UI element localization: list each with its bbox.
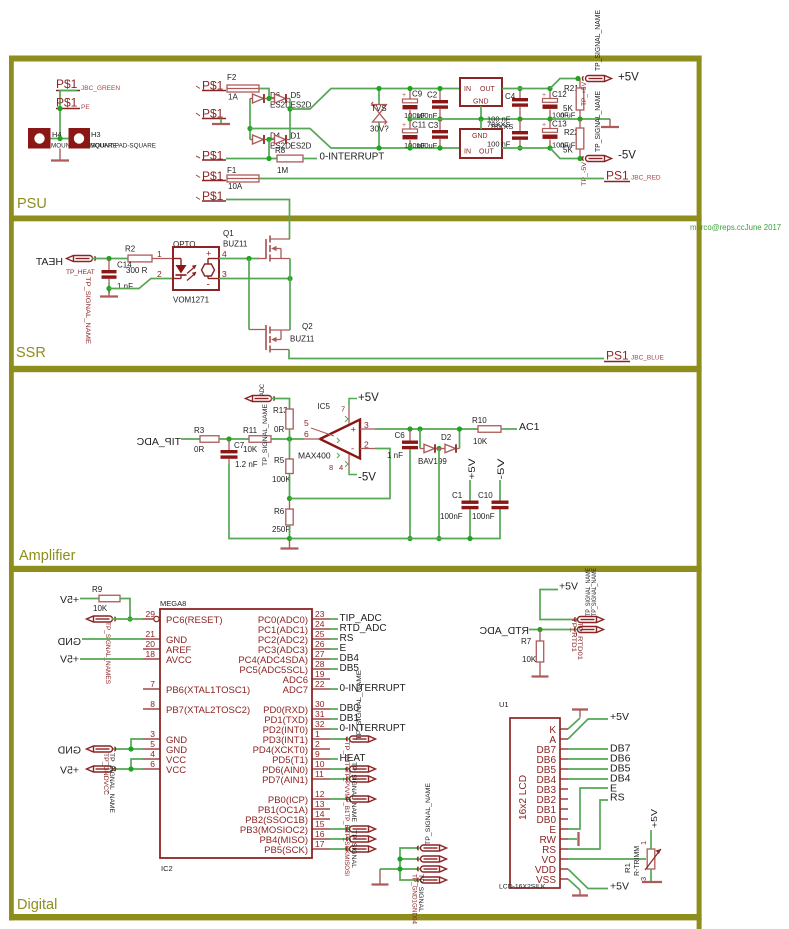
testpoint TP_-5V pad — [582, 156, 611, 162]
pin 3 op-amp — [360, 428, 375, 430]
wire TP to R13 — [271, 399, 290, 410]
ground RW rotated — [568, 838, 577, 840]
wire pin 22 stub — [330, 688, 338, 690]
svg-text:6: 6 — [304, 429, 309, 439]
svg-text:6: 6 — [150, 759, 155, 769]
svg-text:21: 21 — [146, 629, 156, 639]
svg-text:1 nF: 1 nF — [117, 282, 133, 291]
wire E LCD — [568, 788, 608, 829]
svg-text:C10: C10 — [478, 491, 493, 500]
svg-text:R11: R11 — [243, 426, 258, 435]
svg-text:4: 4 — [339, 463, 343, 472]
tvs diode TVS — [378, 89, 380, 105]
svg-text:+: + — [542, 122, 546, 129]
svg-text:1.2 nF: 1.2 nF — [235, 460, 258, 469]
svg-text:+: + — [206, 249, 211, 259]
svg-text:-: - — [207, 280, 210, 291]
wire Q2 source to PS1_JBC_BLUE — [289, 350, 604, 359]
pin 13 PB1(OC1A) right — [312, 808, 330, 810]
wire DB6 — [568, 758, 608, 760]
svg-text:22: 22 — [315, 679, 325, 689]
mount pad H4 — [28, 128, 51, 149]
svg-text:TIP_ADC: TIP_ADC — [136, 436, 181, 448]
svg-text:3: 3 — [364, 420, 369, 430]
svg-text:19: 19 — [315, 669, 325, 679]
wire op-amp output rail — [375, 428, 478, 430]
pin 9 PD5(T1) right — [312, 758, 330, 760]
wire R11 to main node — [271, 438, 304, 440]
pin 3 GND left — [143, 738, 160, 740]
svg-text:C2: C2 — [427, 91, 438, 100]
pin E LCD — [560, 828, 568, 830]
pin 26 PC3(ADC3) right — [312, 648, 330, 650]
testpoint pad cluster 2 — [417, 856, 446, 862]
svg-text:C4: C4 — [505, 92, 516, 101]
capacitor C14 — [108, 259, 110, 271]
wire Q1 source to node — [289, 259, 291, 279]
wire pin 23 stub — [330, 618, 338, 620]
svg-text:TP_HEAT: TP_HEAT — [66, 269, 95, 276]
wire -5V diagonal down — [550, 148, 578, 159]
svg-text:TP_SIGNAL_NAME: TP_SIGNAL_NAME — [425, 783, 432, 845]
wire pin 28 stub — [330, 668, 338, 670]
resistor R5 — [289, 439, 291, 459]
wire pin 27 stub — [330, 658, 338, 660]
svg-text:OUT: OUT — [480, 86, 496, 93]
wire AC2 node down to R8 node — [268, 140, 270, 159]
wire R3 to node — [219, 438, 249, 440]
wire diode mid to bottom rail — [438, 449, 440, 539]
svg-text:Amplifier: Amplifier — [19, 548, 76, 564]
wire R9 to reset node — [120, 599, 130, 620]
svg-text:IN: IN — [464, 86, 471, 93]
pin 25 PC2(ADC2) right — [312, 638, 330, 640]
capacitor C3 — [439, 119, 441, 130]
svg-text:R5: R5 — [274, 456, 285, 465]
svg-text:1: 1 — [157, 249, 162, 259]
svg-text:TP_-5V: TP_-5V — [581, 161, 588, 186]
wire regulator lower GND pin — [480, 119, 482, 129]
ground at P$1 — [220, 119, 222, 124]
svg-text:IC5: IC5 — [318, 402, 331, 411]
wire +5V diagonal up — [550, 79, 578, 89]
wire RTD +5V to testpoint — [540, 590, 578, 620]
testpoint pad pin 11 — [346, 776, 375, 782]
testpoint GND pad — [87, 746, 116, 752]
svg-text:AC1: AC1 — [519, 421, 540, 433]
svg-text:3: 3 — [222, 269, 227, 279]
frame right border — [697, 56, 702, 929]
pin 12 PB0(ICP) right — [312, 798, 330, 800]
node R21 bottom — [577, 116, 582, 121]
svg-text:R7: R7 — [521, 637, 532, 646]
ground above LCD K pin — [572, 708, 588, 710]
svg-text:20: 20 — [146, 639, 156, 649]
svg-text:TP_GNDVCC: TP_GNDVCC — [102, 753, 109, 795]
svg-text:-5V: -5V — [496, 459, 506, 480]
svg-text:16: 16 — [315, 829, 325, 839]
node C4 bottom — [517, 116, 522, 121]
node C4 top — [517, 86, 522, 91]
svg-text:TP_SIGNAL_NAME: TP_SIGNAL_NAME — [262, 404, 269, 466]
wire trimmer to +5V — [650, 830, 652, 849]
wire GND mid rail — [410, 118, 610, 120]
wire pin 26 stub — [330, 648, 338, 650]
node R7 top junction — [537, 627, 542, 632]
frame divider Amplifier/Digital — [9, 566, 702, 572]
node bridge AC1 junction — [266, 96, 271, 101]
wire pin 30 stub — [330, 708, 338, 710]
node bottom rail R6 — [287, 536, 292, 541]
node C7 junction — [226, 436, 231, 441]
svg-text:GND: GND — [473, 99, 489, 106]
svg-text:TP_GND1GND04: TP_GND1GND04 — [411, 874, 418, 924]
svg-text:2: 2 — [364, 440, 369, 450]
svg-text:8: 8 — [329, 463, 333, 472]
wire testpoint row3 — [380, 868, 421, 870]
svg-text:3: 3 — [150, 729, 155, 739]
wire R8 to 0-INTERRUPT — [303, 158, 317, 160]
svg-text:+: + — [351, 425, 357, 436]
svg-text:1 nF: 1 nF — [387, 451, 403, 460]
pin 2 op-amp — [360, 448, 375, 450]
svg-text:F2: F2 — [227, 73, 237, 82]
pin DB0 LCD — [560, 818, 568, 820]
svg-text:JBC_GREEN: JBC_GREEN — [81, 85, 120, 92]
svg-text:4: 4 — [222, 249, 227, 259]
testpoint TP ADC pad amplifier — [246, 396, 275, 402]
pin 16 PB4(MISO) right — [312, 838, 330, 840]
wire pin 24 stub — [330, 628, 338, 630]
svg-text:IN: IN — [464, 149, 471, 156]
resistor R6 — [289, 499, 291, 510]
wire pin 12 to testpoint — [330, 798, 350, 800]
node bridge plus junction — [287, 106, 292, 111]
svg-text:4: 4 — [150, 749, 155, 759]
svg-text:31: 31 — [315, 709, 325, 719]
svg-text:+5V: +5V — [559, 581, 578, 593]
pin 6 output lead — [304, 438, 320, 440]
svg-text:1M: 1M — [277, 166, 288, 175]
svg-text:29: 29 — [146, 609, 156, 619]
wire PE net from JBC_GREEN pin — [60, 91, 77, 139]
pin 28 PC5(ADC5SCL) right — [312, 668, 330, 670]
svg-text:PB7(XTAL2TOSC2): PB7(XTAL2TOSC2) — [166, 705, 250, 716]
node diode mid bottom — [436, 536, 441, 541]
node diode branch top — [417, 426, 422, 431]
node R22 bottom — [577, 156, 582, 161]
svg-text:SSR: SSR — [16, 345, 46, 361]
svg-text:0-INTERRUPT: 0-INTERRUPT — [320, 152, 385, 163]
svg-text:OUT: OUT — [479, 149, 495, 156]
svg-text:23: 23 — [315, 609, 325, 619]
wire OPTO pin4 to Q1 gate — [219, 258, 259, 260]
wire D2 cathode up to rail — [457, 448, 460, 450]
testpoint pad pin 12 — [346, 796, 375, 802]
wire reset to IC pin 29 — [112, 618, 143, 620]
svg-text:ADC: ADC — [259, 384, 266, 396]
wire amplifier bottom rail — [290, 509, 501, 539]
wire node to Q2 drain — [289, 279, 291, 331]
node D2 rail junction — [457, 426, 462, 431]
svg-text:TP_+5V: TP_+5V — [581, 81, 588, 106]
pin RW LCD — [560, 838, 568, 840]
wire GND pin3 — [131, 739, 143, 749]
pin 2 PD4(XCKT0) right — [312, 748, 330, 750]
pin DB6 LCD — [560, 758, 568, 760]
svg-text:C14: C14 — [117, 261, 132, 270]
svg-text:TP_SIGNAL: TP_SIGNAL — [350, 830, 357, 868]
node rail row2 — [397, 856, 402, 861]
svg-text:JBC_RED: JBC_RED — [631, 175, 661, 182]
svg-text:+5V: +5V — [610, 711, 629, 723]
wire DB4 — [568, 778, 608, 780]
wire pin 11 to testpoint — [330, 778, 350, 780]
node C14 top junction — [106, 256, 111, 261]
svg-text:marco@reps.ccJune 2017: marco@reps.ccJune 2017 — [690, 223, 781, 232]
wire bridge plus to positive rail — [290, 89, 460, 110]
diode BAV199 left — [424, 444, 435, 453]
pin 19 ADC6 right — [312, 678, 330, 680]
svg-text:Q1: Q1 — [223, 229, 234, 238]
svg-text:10K: 10K — [522, 655, 537, 664]
wire testpoint row2 — [400, 858, 421, 860]
wire TIP_ADC to R3 — [181, 438, 200, 440]
svg-text:TP_SIGNAL_NAME: TP_SIGNAL_NAME — [595, 10, 602, 71]
svg-text:U1: U1 — [499, 700, 509, 709]
node C3 bottom — [437, 145, 442, 150]
pin 7 power pin — [348, 408, 350, 424]
svg-text:TP_SIGNAL_NAME: TP_SIGNAL_NAME — [356, 669, 363, 740]
wire R13 to node — [289, 429, 291, 439]
svg-text:26: 26 — [315, 639, 325, 649]
svg-text:17: 17 — [315, 839, 325, 849]
pin 4 VCC left — [143, 758, 160, 760]
capacitor lower 100nF — [519, 119, 521, 131]
wire -5V rail after regulator — [502, 147, 550, 149]
svg-text:P$1: P$1 — [56, 77, 78, 91]
pin 27 PC4(ADC4SDA) right — [312, 658, 330, 660]
wire K to ground — [568, 718, 580, 729]
pin K LCD — [560, 728, 568, 730]
svg-text:R3: R3 — [194, 426, 205, 435]
pin 21 GND left — [143, 638, 160, 640]
svg-text:TP_PVVMP_B1TP_B0: TP_PVVMP_B1TP_B0 — [343, 770, 350, 832]
svg-text:TP_SCKMISOSI: TP_SCKMISOSI — [343, 830, 350, 876]
svg-text:F1: F1 — [227, 166, 237, 175]
svg-text:R1: R1 — [625, 863, 632, 873]
svg-text:D5: D5 — [291, 91, 302, 100]
ground below trimmer — [642, 881, 662, 883]
svg-text:HEAT: HEAT — [35, 256, 63, 268]
svg-text:MEGA8: MEGA8 — [160, 599, 186, 608]
pin 7 PB6(XTAL1TOSC1) left — [143, 688, 160, 690]
pin DB7 LCD — [560, 748, 568, 750]
svg-text:+: + — [402, 92, 406, 99]
wire pin 32 stub — [330, 728, 338, 730]
svg-text:JBC_BLUE: JBC_BLUE — [631, 355, 665, 362]
svg-text:15: 15 — [315, 819, 325, 829]
power pin arrows green — [345, 416, 348, 467]
svg-text:7: 7 — [150, 679, 155, 689]
wire A to +5V — [568, 719, 608, 739]
svg-text:ES2D: ES2D — [291, 142, 312, 151]
capacitor C6 — [409, 429, 411, 441]
svg-text:25: 25 — [315, 629, 325, 639]
wire RS LCD — [568, 800, 608, 849]
pin 5 GND left — [143, 748, 160, 750]
svg-text:+5V: +5V — [467, 459, 477, 480]
svg-text:PB5(SCK): PB5(SCK) — [264, 845, 308, 856]
svg-text:RTD_ADC: RTD_ADC — [479, 625, 529, 637]
svg-text:11: 11 — [315, 769, 324, 779]
svg-text:+5V: +5V — [60, 654, 79, 666]
svg-text:16x2 LCD: 16x2 LCD — [518, 775, 529, 820]
pin 4 power pin — [348, 454, 350, 470]
svg-text:24: 24 — [315, 619, 325, 629]
capacitor C11 — [409, 119, 411, 129]
capacitor C7 — [228, 439, 230, 450]
svg-text:5: 5 — [150, 739, 155, 749]
testpoint pad pin 1 — [346, 736, 375, 742]
svg-text:0R: 0R — [274, 425, 284, 434]
svg-text:30V?: 30V? — [370, 125, 389, 134]
svg-text:IC2: IC2 — [161, 864, 173, 873]
diode D1 — [275, 135, 286, 144]
svg-text:TP_SIGNAL_NAME: TP_SIGNAL_NAME — [108, 753, 115, 813]
node C9 top — [407, 86, 412, 91]
wire F2 to bridge top — [259, 89, 269, 99]
pin 31 PD1(TXD) right — [312, 718, 330, 720]
node R21 top — [575, 76, 580, 81]
wire H4 to H3 — [51, 138, 69, 140]
frame divider SSR/Amplifier — [9, 366, 702, 372]
wire GND pin21 — [82, 638, 143, 640]
pin RS LCD — [560, 848, 568, 850]
svg-text:10A: 10A — [228, 182, 243, 191]
node C9 bottom — [407, 116, 412, 121]
frame top border PSU — [9, 56, 702, 62]
testpoint pad cluster 3 — [417, 866, 446, 872]
wire R6 to bottom rail — [289, 525, 291, 539]
pin 29 PC6(RESET) left — [143, 618, 154, 620]
svg-text:GND: GND — [57, 745, 81, 757]
wire pin 15 to testpoint — [330, 828, 350, 830]
wire +5V rail after regulator — [502, 88, 550, 90]
ground below mount pads — [59, 149, 61, 161]
pin 20 AREF left — [143, 648, 160, 650]
node C12 top — [547, 86, 552, 91]
ground bottom cluster — [379, 869, 381, 884]
svg-text:D1: D1 — [291, 132, 302, 141]
pin 8 PB7(XTAL2TOSC2) left — [143, 708, 160, 710]
wire pin 9 stub — [330, 758, 338, 760]
frame left border — [9, 56, 14, 921]
svg-text:C11: C11 — [412, 121, 427, 130]
wire regulator upper GND pin — [480, 106, 482, 119]
node C1 bottom — [467, 536, 472, 541]
svg-text:R-TRIMM: R-TRIMM — [634, 846, 641, 876]
wire feedback to op-amp minus — [290, 449, 391, 499]
node C2 top — [437, 86, 442, 91]
svg-text:TP_SIGNAL_NAME: TP_SIGNAL_NAME — [84, 277, 91, 344]
wire DB7 — [568, 748, 608, 750]
node C2 bottom — [437, 116, 442, 121]
svg-text:D2: D2 — [441, 433, 452, 442]
node bridge minus junction — [247, 126, 252, 131]
svg-text:GND: GND — [57, 636, 81, 648]
wire RTD_ADC to testpoint — [529, 629, 578, 631]
svg-text:12: 12 — [315, 789, 325, 799]
pin 23 PC0(ADC0) right — [312, 618, 330, 620]
svg-text:+5V: +5V — [60, 765, 79, 777]
svg-text:R6: R6 — [274, 507, 285, 516]
wire HEAT to R2 — [92, 258, 128, 260]
node C14 bottom junction — [106, 286, 111, 291]
ground amplifier — [289, 539, 291, 549]
node between diodes — [436, 446, 441, 451]
wire C14 to OPTO pin2 — [109, 279, 173, 289]
svg-text:5: 5 — [304, 418, 309, 428]
svg-text:32: 32 — [315, 719, 325, 729]
wire R5 to feedback node — [289, 474, 291, 499]
diode D6 — [253, 94, 264, 103]
pin 11 PD7(AIN1) right — [312, 778, 330, 780]
svg-text:100K: 100K — [272, 475, 291, 484]
ground below R7 — [539, 662, 541, 676]
svg-text:VCC: VCC — [166, 765, 186, 776]
node PE junction — [57, 106, 62, 111]
node regulator GND junction — [478, 116, 483, 121]
svg-text:PB6(XTAL1TOSC1): PB6(XTAL1TOSC1) — [166, 685, 250, 696]
frame divider PSU/SSR — [9, 216, 702, 222]
svg-text:PS1: PS1 — [606, 169, 629, 183]
svg-text:PS1: PS1 — [606, 349, 629, 363]
testpoint TP_RTD0 pad — [574, 627, 603, 633]
wire VCC pin6 — [112, 768, 143, 770]
testpoint TP_+5V pad — [582, 76, 611, 82]
svg-text:27: 27 — [315, 649, 325, 659]
svg-text:100nF: 100nF — [472, 512, 495, 521]
wire DB5 — [568, 768, 608, 770]
svg-text:+5V: +5V — [358, 392, 379, 404]
svg-text:7: 7 — [341, 405, 345, 414]
svg-text:PSU: PSU — [17, 196, 47, 212]
wire C6 to bottom rail — [409, 449, 411, 539]
svg-text:PE: PE — [81, 104, 90, 111]
svg-text:TP_SIGNAL_NAME: TP_SIGNAL_NAME — [350, 762, 357, 822]
svg-text:Digital: Digital — [17, 897, 57, 913]
svg-text:28: 28 — [315, 659, 325, 669]
svg-text:5K: 5K — [563, 104, 573, 113]
svg-text:BAV199: BAV199 — [418, 457, 447, 466]
wire trimmer to ground — [650, 869, 652, 881]
node C11 bottom — [407, 145, 412, 150]
svg-text:R10: R10 — [472, 416, 487, 425]
svg-text:TP_RTD1: TP_RTD1 — [570, 618, 577, 652]
mount pad H3 — [69, 128, 91, 149]
svg-text:10K: 10K — [473, 437, 488, 446]
svg-text:18: 18 — [146, 649, 156, 659]
capacitor C12 — [549, 89, 551, 99]
ground below C14 — [108, 291, 110, 296]
wire C7 to bottom rail — [229, 464, 290, 539]
svg-text:5K: 5K — [563, 146, 573, 155]
testpoint pad pin 17 — [346, 846, 375, 852]
svg-text:ADC7: ADC7 — [283, 685, 308, 696]
pin 1 PD3(INT1) right — [312, 738, 330, 740]
svg-text:TP_SIGNAL_NAME: TP_SIGNAL_NAME — [591, 568, 598, 616]
